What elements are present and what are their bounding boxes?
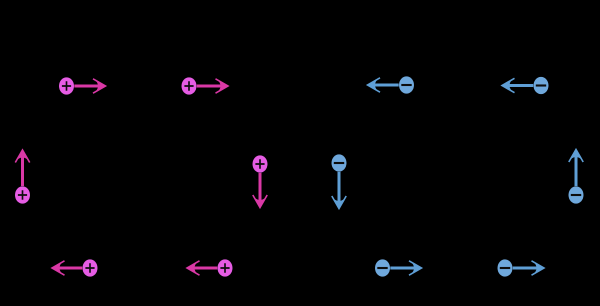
positive charge P2 bbox=[182, 77, 197, 94]
negative charge B2 bbox=[534, 77, 549, 94]
negative charge B6 bbox=[498, 259, 513, 276]
negative charge B3 bbox=[332, 154, 347, 171]
velocity arrow of B6 (right) bbox=[513, 261, 545, 275]
positive charge P4 bbox=[253, 155, 268, 172]
negative charge B4 bbox=[569, 186, 584, 203]
negative charge B5 bbox=[375, 259, 390, 276]
velocity arrow of B1 (left) bbox=[367, 78, 399, 92]
negative charge B1 bbox=[399, 76, 414, 93]
velocity arrow of B4 (up) bbox=[569, 149, 583, 187]
velocity arrow of P6 (left) bbox=[186, 261, 217, 275]
velocity arrow of P5 (left) bbox=[51, 261, 82, 275]
velocity arrow of B3 (down) bbox=[332, 172, 346, 210]
velocity arrow of B5 (right) bbox=[390, 261, 422, 275]
velocity arrow of P3 (up) bbox=[15, 149, 29, 186]
positive charge P3 bbox=[15, 186, 30, 203]
velocity arrow of P4 (down) bbox=[253, 173, 267, 209]
velocity arrow of P1 (right) bbox=[74, 79, 106, 93]
positive charge P6 bbox=[218, 259, 233, 276]
positive charge P5 bbox=[83, 259, 98, 276]
velocity arrow of B2 (left) bbox=[501, 78, 533, 92]
positive charge P1 bbox=[59, 77, 74, 94]
velocity arrow of P2 (right) bbox=[197, 79, 229, 93]
